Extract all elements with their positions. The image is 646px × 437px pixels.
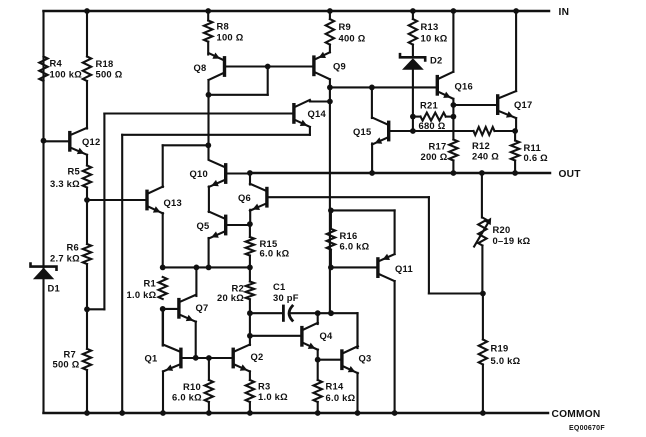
svg-text:0–19 kΩ: 0–19 kΩ xyxy=(493,235,531,246)
resistor R20 xyxy=(474,218,491,247)
wire R20-node xyxy=(481,246,483,294)
wire R10-common xyxy=(208,402,210,413)
transistor Q12 xyxy=(70,128,87,155)
junction R5-Q13base xyxy=(84,197,90,203)
wire Q4 base xyxy=(250,335,302,337)
svg-text:R4: R4 xyxy=(50,58,63,69)
label R15 xyxy=(260,238,290,258)
label Q7 xyxy=(196,302,209,313)
svg-text:6.0 kΩ: 6.0 kΩ xyxy=(340,241,370,252)
wire Q4 coll up xyxy=(317,313,319,324)
transistor Q16 xyxy=(437,72,453,99)
wire Q17 coll up xyxy=(515,11,517,91)
wire Q2 emit down xyxy=(249,371,251,380)
junction Q7emit-base xyxy=(193,355,199,361)
node OUT label xyxy=(559,169,582,180)
junction Q17 base tee xyxy=(451,102,457,108)
wire Q17 base xyxy=(453,104,497,106)
transistor Q5 xyxy=(209,212,226,239)
wire R18-Q12 xyxy=(86,81,88,129)
svg-text:100 kΩ: 100 kΩ xyxy=(50,69,83,80)
label R18 xyxy=(96,58,123,80)
wire Q3 emit down xyxy=(356,373,358,413)
wire R14-common xyxy=(317,402,319,413)
svg-text:6.0 kΩ: 6.0 kΩ xyxy=(172,391,202,402)
wire R14 feed xyxy=(317,360,319,380)
junction R6 bottom xyxy=(84,306,90,312)
resistor R10 xyxy=(205,380,213,402)
junction R21 right xyxy=(451,114,457,120)
transistor Q10 xyxy=(209,160,226,187)
wire link to R20 xyxy=(429,292,483,294)
svg-text:200 Ω: 200 Ω xyxy=(421,151,448,162)
svg-text:R5: R5 xyxy=(68,166,80,177)
junction R10 top xyxy=(206,355,212,361)
svg-text:OUT: OUT xyxy=(559,169,582,180)
junction Q1emit-common xyxy=(160,410,166,416)
wire Q5 emit down xyxy=(208,238,210,267)
junction Q11 base node xyxy=(328,265,334,271)
svg-text:Q16: Q16 xyxy=(455,80,473,91)
wire Q11 emit up xyxy=(394,210,396,254)
label R12 xyxy=(472,140,499,162)
wire Q8 tie left xyxy=(209,94,268,96)
wire R16 feed xyxy=(330,210,332,228)
svg-text:Q15: Q15 xyxy=(353,126,371,137)
wire Q12 emitter-R5 xyxy=(86,155,88,166)
svg-text:240 Ω: 240 Ω xyxy=(472,150,499,161)
wire Q6 emit down xyxy=(249,210,251,224)
resistor R15 xyxy=(246,237,254,256)
label Q12 xyxy=(82,136,100,147)
wire Q4 emit down xyxy=(317,350,319,360)
junction R17-out xyxy=(451,170,457,176)
wire R13 feed xyxy=(412,11,414,19)
wire R13-D2 xyxy=(412,45,414,58)
svg-text:10 kΩ: 10 kΩ xyxy=(421,33,448,44)
label R20 xyxy=(493,224,531,246)
wire R6bot stub xyxy=(87,308,104,310)
resistor R13 xyxy=(409,19,417,45)
junction rail-R9 xyxy=(327,8,333,14)
svg-text:R19: R19 xyxy=(491,342,509,353)
wire COMMON rail xyxy=(44,412,549,415)
wire Q9 coll down xyxy=(329,79,331,87)
wire R5-R6 xyxy=(86,188,88,245)
svg-text:2.7 kΩ: 2.7 kΩ xyxy=(50,253,80,264)
svg-text:Q10: Q10 xyxy=(190,168,208,179)
junction Q12 base xyxy=(41,138,47,144)
svg-text:Q3: Q3 xyxy=(359,352,372,363)
label R21 xyxy=(419,99,446,131)
junction Q15 base xyxy=(410,128,416,134)
transistor Q4 xyxy=(302,323,318,350)
junction out-R20 xyxy=(479,170,485,176)
label Q3 xyxy=(359,352,372,363)
junction Q9 coll B xyxy=(327,99,333,105)
label Q5 xyxy=(197,220,210,231)
wire Q16 base run xyxy=(330,86,437,88)
wire D2-R21 xyxy=(412,70,414,131)
junction R21 left xyxy=(410,114,416,120)
junction R12-Q17emit xyxy=(512,128,518,134)
label C1 xyxy=(273,281,299,303)
wire Q8 tie down xyxy=(267,67,269,95)
diode D1 xyxy=(31,264,57,280)
junction Q11-common xyxy=(392,410,398,416)
label Q14 xyxy=(308,108,327,119)
wire Q13 emitter down xyxy=(162,213,164,267)
wire R9-Q9emit xyxy=(329,45,331,53)
wire R15-R2 xyxy=(249,256,251,282)
capacitor C1 xyxy=(250,306,331,320)
label Q4 xyxy=(320,330,334,341)
resistor R7 xyxy=(83,349,91,370)
wire R2-C1node xyxy=(249,299,251,336)
svg-text:3.3 kΩ: 3.3 kΩ xyxy=(50,178,80,189)
junction C1 left xyxy=(247,310,253,316)
svg-text:R8: R8 xyxy=(217,21,229,32)
svg-text:Q6: Q6 xyxy=(238,192,251,203)
label R6 xyxy=(50,242,80,264)
wire Q17 emit down xyxy=(515,118,517,131)
label Q17 xyxy=(514,99,532,110)
svg-text:Q8: Q8 xyxy=(194,62,207,73)
wire Q1Q2 base run xyxy=(181,357,233,359)
wire Q13coll run xyxy=(163,144,209,146)
svg-text:C1: C1 xyxy=(273,281,285,292)
wire Q13 base xyxy=(87,199,147,201)
wire R16top-Q11emit xyxy=(331,209,395,211)
junction R10-common xyxy=(206,410,212,416)
junction C1 node2 xyxy=(328,310,334,316)
svg-text:COMMON: COMMON xyxy=(552,409,601,420)
junction rail-R8 xyxy=(205,8,211,14)
junction R11-out xyxy=(512,170,518,176)
svg-text:6.0 kΩ: 6.0 kΩ xyxy=(260,247,290,258)
junction vertB-common xyxy=(119,410,125,416)
junction R14-common xyxy=(315,410,321,416)
svg-text:0.6 Ω: 0.6 Ω xyxy=(524,152,549,163)
wire Q8coll down long xyxy=(207,95,209,159)
wire Q16 coll up xyxy=(452,11,454,72)
label R4 xyxy=(50,58,83,80)
wire Q15base-R12 run xyxy=(413,130,474,132)
svg-text:IN: IN xyxy=(559,7,570,18)
wire Q5 base xyxy=(226,224,250,226)
label R11 xyxy=(524,142,549,163)
label D1 xyxy=(48,283,60,294)
junction rail-R13 xyxy=(410,8,416,14)
svg-text:R16: R16 xyxy=(340,230,358,241)
wire R3-common xyxy=(249,402,251,413)
junction Q4 base node xyxy=(247,333,253,339)
wire Q2 coll up xyxy=(249,336,251,345)
label Q11 xyxy=(395,263,413,274)
wire Q9coll down long xyxy=(329,87,331,313)
junction R16 top xyxy=(328,208,334,214)
wire R6-R7 xyxy=(86,264,88,349)
wire R15 feed xyxy=(249,224,251,237)
svg-text:1.0 kΩ: 1.0 kΩ xyxy=(127,289,157,300)
svg-text:100 Ω: 100 Ω xyxy=(217,32,244,43)
wire Q11 base run xyxy=(331,266,378,268)
svg-text:R17: R17 xyxy=(429,140,447,151)
label R7 xyxy=(53,349,80,370)
transistor Q13 xyxy=(147,187,163,214)
wire Q12 base xyxy=(44,140,70,142)
svg-text:680 Ω: 680 Ω xyxy=(419,120,446,131)
wire bias vert B xyxy=(121,135,123,413)
label Q16 xyxy=(455,80,473,91)
junction Q8 coll xyxy=(206,92,212,98)
wire Q14 base run xyxy=(104,112,294,114)
label Q2 xyxy=(251,351,264,362)
wire Q16 emit down xyxy=(452,99,454,117)
junction Q15 coll xyxy=(369,85,375,91)
wire R20 feed xyxy=(481,173,483,218)
transistor Q9 xyxy=(314,52,330,80)
resistor R4 xyxy=(39,57,47,82)
label R19 xyxy=(491,342,521,366)
svg-text:R20: R20 xyxy=(493,224,511,235)
label R14 xyxy=(326,380,356,403)
wire Q7 coll up xyxy=(195,267,197,296)
junction rail-Q17 xyxy=(513,8,519,14)
wire Q8 collector down xyxy=(207,80,209,95)
wire R17-out xyxy=(452,161,454,174)
wire Q1 coll up xyxy=(162,309,164,346)
resistor R14 xyxy=(314,380,322,402)
transistor Q6 xyxy=(250,184,267,211)
wire Q6 coll up xyxy=(249,173,251,185)
transistor Q3 xyxy=(342,346,358,373)
junction C1 right xyxy=(315,310,321,316)
node IN label xyxy=(559,7,570,18)
label Q15 xyxy=(353,126,371,137)
diode D2 xyxy=(400,54,425,70)
svg-text:R12: R12 xyxy=(472,140,490,151)
wire Q13 collector xyxy=(162,145,164,187)
junction R19-common xyxy=(480,410,486,416)
svg-text:D2: D2 xyxy=(430,54,442,65)
wire R21 right stub xyxy=(446,116,454,118)
label D2 xyxy=(430,54,442,65)
wire R8 feed xyxy=(207,11,209,21)
transistor Q17 xyxy=(498,91,516,118)
label R2 xyxy=(217,282,244,303)
junction R20-R19 node xyxy=(480,291,486,297)
resistor R9 xyxy=(326,19,334,45)
resistor R18 xyxy=(83,57,91,82)
junction rail-R18 xyxy=(84,8,90,14)
resistor R11 xyxy=(511,141,519,161)
wire Q3 coll up xyxy=(356,313,358,348)
svg-text:Q9: Q9 xyxy=(333,60,346,71)
junction Q8 base tie xyxy=(265,64,271,70)
resistor R12 xyxy=(474,127,495,135)
wire Q15 coll up xyxy=(371,87,373,118)
transistor Q7 xyxy=(179,295,196,322)
wire R10 feed xyxy=(208,358,210,380)
svg-text:Q13: Q13 xyxy=(164,197,182,208)
transistor Q14 xyxy=(294,100,310,127)
resistor R21 xyxy=(421,113,446,121)
wire Q15 emit down xyxy=(371,144,373,174)
wire Q6 base run xyxy=(267,196,429,198)
wire Q14 emit down xyxy=(309,127,311,135)
svg-text:EQ00670F: EQ00670F xyxy=(569,425,605,432)
node COMMON label xyxy=(552,409,601,420)
label Q8 xyxy=(194,62,207,73)
wire Q1 emit down xyxy=(162,371,164,413)
wire Q11 coll down xyxy=(394,281,396,413)
resistor R17 xyxy=(449,140,457,161)
junction Q9 coll A xyxy=(327,85,333,91)
label Q9 xyxy=(333,60,346,71)
svg-text:6.0 kΩ: 6.0 kΩ xyxy=(326,392,356,403)
svg-text:D1: D1 xyxy=(48,283,60,294)
label Q10 xyxy=(190,168,208,179)
wire R12-Q17emit xyxy=(495,130,516,132)
wire R8-Q8emit xyxy=(207,42,209,55)
resistor R16 xyxy=(327,229,335,250)
wire R1bot down xyxy=(162,309,164,346)
wire Q3 base xyxy=(318,359,342,361)
wire Q6base down xyxy=(428,197,430,293)
svg-text:R10: R10 xyxy=(183,381,201,392)
junction R15 top xyxy=(247,221,253,227)
svg-text:400 Ω: 400 Ω xyxy=(339,33,366,44)
resistor R19 xyxy=(479,340,487,365)
svg-text:R21: R21 xyxy=(420,99,438,110)
junction Q15emit-out xyxy=(369,170,375,176)
wire Q7 emit down xyxy=(195,322,197,358)
label R9 xyxy=(339,21,366,44)
junction Q10 base-out xyxy=(247,170,253,176)
junction R1 bottom xyxy=(160,306,166,312)
svg-text:Q4: Q4 xyxy=(320,330,334,341)
svg-text:R13: R13 xyxy=(421,21,439,32)
wire Q14 coll run xyxy=(310,100,330,102)
label R3 xyxy=(258,380,288,402)
svg-text:R9: R9 xyxy=(339,21,351,32)
wire bias vert A xyxy=(103,114,105,310)
wire Q14 emitter run xyxy=(122,134,310,136)
wire Q16emit-R17 xyxy=(452,117,454,140)
wire left supply xyxy=(42,11,44,413)
transistor Q8 xyxy=(209,53,225,81)
wire R9 feed xyxy=(329,11,331,19)
transistor Q1 xyxy=(163,345,181,372)
junction R15 bottom xyxy=(247,265,253,271)
wire innode run xyxy=(163,266,250,268)
svg-text:5.0 kΩ: 5.0 kΩ xyxy=(491,355,521,366)
svg-text:Q1: Q1 xyxy=(145,352,158,363)
svg-text:500 Ω: 500 Ω xyxy=(96,69,123,80)
svg-text:500 Ω: 500 Ω xyxy=(53,359,80,370)
label R5 xyxy=(50,166,80,190)
label Q6 xyxy=(238,192,251,203)
resistor R1 xyxy=(159,277,167,299)
resistor R3 xyxy=(246,380,254,402)
svg-text:Q17: Q17 xyxy=(514,99,532,110)
svg-text:Q12: Q12 xyxy=(82,136,100,147)
wire Q10 base xyxy=(226,172,250,174)
svg-text:R1: R1 xyxy=(144,278,156,289)
wire R1-Q7base xyxy=(163,308,179,310)
wire node-R19 xyxy=(482,294,484,340)
transistor Q15 xyxy=(372,118,389,145)
svg-text:Q5: Q5 xyxy=(197,220,210,231)
svg-text:Q2: Q2 xyxy=(251,351,264,362)
svg-text:1.0 kΩ: 1.0 kΩ xyxy=(258,391,288,402)
resistor R5 xyxy=(83,166,91,188)
transistor Q11 xyxy=(378,254,395,281)
transistor Q2 xyxy=(233,345,250,372)
junction Q3emit-common xyxy=(355,410,361,416)
wire Q10 emit down xyxy=(208,187,210,213)
junction R3-common xyxy=(247,410,253,416)
wire R21 left stub xyxy=(413,116,421,118)
label R16 xyxy=(340,230,370,252)
svg-text:20 kΩ: 20 kΩ xyxy=(217,292,244,303)
wire OUT rail xyxy=(250,172,550,175)
label R1 xyxy=(127,278,157,301)
junction R1 top xyxy=(160,265,166,271)
svg-text:R6: R6 xyxy=(67,242,79,253)
wire R11-out xyxy=(514,161,516,174)
svg-text:Q11: Q11 xyxy=(395,263,413,274)
label R13 xyxy=(421,21,448,44)
svg-text:R18: R18 xyxy=(96,58,114,69)
wire IN rail xyxy=(44,10,550,13)
wire R18 feed xyxy=(86,11,88,57)
resistor R2 xyxy=(246,282,254,300)
wire R16-Q11base xyxy=(330,250,332,268)
label R8 xyxy=(217,21,244,43)
junction Q3 base node xyxy=(315,357,321,363)
wire R19-common xyxy=(482,365,484,414)
svg-text:R3: R3 xyxy=(258,380,270,391)
resistor R8 xyxy=(204,21,212,42)
wire Q8 base right xyxy=(225,65,314,67)
resistor R6 xyxy=(83,244,91,264)
wire Q15 base xyxy=(389,130,413,132)
wire Q17emit-R11 xyxy=(514,131,516,141)
label R17 xyxy=(421,140,448,162)
svg-text:R14: R14 xyxy=(326,380,344,391)
wire C1-Q3coll xyxy=(331,313,358,348)
junction Q13coll-Q10 xyxy=(205,142,211,148)
note EQ00670F xyxy=(569,425,605,432)
junction Q7 coll xyxy=(194,265,200,271)
junction rail-Q16 xyxy=(451,8,457,14)
label Q13 xyxy=(164,197,182,208)
svg-text:Q7: Q7 xyxy=(196,302,209,313)
junction Q5emit node xyxy=(206,265,212,271)
label Q1 xyxy=(145,352,158,363)
svg-text:Q14: Q14 xyxy=(308,108,327,119)
svg-text:30 pF: 30 pF xyxy=(273,292,299,303)
wire R7-common xyxy=(86,370,88,413)
junction R7-common xyxy=(84,410,90,416)
label R10 xyxy=(172,381,202,403)
